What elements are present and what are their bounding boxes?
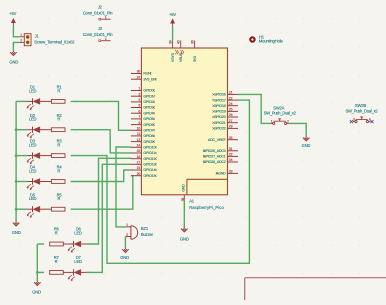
svg-text:GPIO10: GPIO10 [143,146,155,150]
wire D7 to GPIO13 pin 17 [86,164,131,272]
resistor R2 [51,128,65,132]
junction bus row 5 [15,208,18,211]
LED D7 [68,269,93,281]
ground below SW2A [303,136,310,141]
svg-text:22: 22 [229,96,233,100]
svg-text:Conn_01x01_Pin: Conn_01x01_Pin [83,32,114,37]
svg-text:16: 16 [137,155,141,159]
resistor R1 [51,100,65,104]
svg-text:GPIO21: GPIO21 [214,121,226,125]
svg-text:LED: LED [29,169,37,174]
junction bus row 4 [15,180,18,183]
wire stub R7 [37,271,44,273]
wire SW2A to GND [289,123,306,136]
svg-text:5: 5 [138,104,140,108]
svg-text:GND: GND [9,59,18,64]
svg-text:10: 10 [137,127,141,131]
wire GPIO16 to SW2A [238,94,270,123]
svg-text:LED: LED [29,88,37,93]
svg-text:ADC_VREF: ADC_VREF [208,138,227,142]
svg-text:GPIO12: GPIO12 [143,157,155,161]
svg-text:GND: GND [120,255,129,260]
svg-text:GPIO22: GPIO22 [214,127,226,131]
ground left bus [13,221,20,226]
svg-text:A1: A1 [189,199,195,204]
svg-text:4: 4 [138,98,140,102]
sheet frame border corner [245,278,386,300]
svg-text:GPIO14: GPIO14 [143,168,155,172]
svg-text:VSYS: VSYS [171,52,175,62]
svg-text:GPIO3: GPIO3 [143,106,153,110]
mounting hole H1 [250,34,283,43]
svg-text:GPIO5: GPIO5 [143,117,153,121]
svg-text:29: 29 [229,125,233,129]
svg-text:Conn_01x01_Pin: Conn_01x01_Pin [83,11,114,16]
wire resistor R7 to LED D7 [63,271,68,273]
svg-text:14: 14 [137,144,141,148]
buzzer BZ1 [125,223,153,239]
svg-text:12: 12 [137,138,141,142]
connector J2 Conn_01x01_Pin [83,4,114,20]
LED D3 [27,153,52,165]
resistor R5 [51,207,65,211]
svg-text:LED: LED [29,117,37,122]
svg-text:39: 39 [169,40,173,44]
wire pin 38 to GND [183,200,185,228]
Pico top pins [169,40,197,62]
svg-text:GPIO4: GPIO4 [143,111,153,115]
LED D4 [27,178,52,190]
svg-text:33: 33 [229,170,233,174]
svg-text:Buzzer: Buzzer [141,232,154,237]
wire bus stub row 1 [16,100,27,102]
IC A1 RaspberryPi_Pico [141,48,227,210]
svg-text:2: 2 [126,233,128,237]
svg-text:3V3_EN: 3V3_EN [143,77,156,81]
svg-text:R: R [57,143,60,148]
svg-text:1: 1 [105,16,107,20]
svg-text:GPIO1: GPIO1 [143,94,153,98]
svg-text:34: 34 [229,158,233,162]
wire R3 loop to GPIO17 pin 22 [71,100,250,263]
resistor R7 [50,271,64,275]
svg-text:GND: GND [180,236,189,241]
wire R5 to GPIO15 pin 20 [71,176,133,210]
resistor R6 [50,242,64,246]
wire bus stub row 2 [16,129,27,131]
svg-text:+5V: +5V [9,11,16,16]
svg-text:LED: LED [29,196,37,201]
svg-text:GPIO8: GPIO8 [143,134,153,138]
svg-text:GND: GND [181,184,185,192]
svg-text:25: 25 [229,108,233,112]
svg-text:2: 2 [138,92,140,96]
svg-text:20: 20 [137,172,141,176]
pin decorations 39/40 [175,50,178,54]
+5V power symbol (VSYS) [171,19,175,26]
wire resistor R6 to LED D6 [63,243,68,245]
wire bus stub row 3 [16,155,27,157]
svg-text:1: 1 [138,87,140,91]
svg-text:GPIO26_ADC0: GPIO26_ADC0 [203,149,226,153]
ground R6 R7 [34,281,41,286]
svg-text:GPIO19: GPIO19 [214,110,226,114]
svg-text:SW2B: SW2B [355,103,367,108]
switch SW2A SW_Push_Dual_x2 [264,105,297,124]
svg-text:GPIO9: GPIO9 [143,140,153,144]
svg-text:24: 24 [229,102,233,106]
svg-text:35: 35 [229,136,233,140]
wire bus stub row 4 [16,181,27,183]
LED D6 [68,241,93,253]
svg-text:GPIO7: GPIO7 [143,129,153,133]
Pico bottom pin 38 GND [181,184,186,202]
svg-text:GPIO27_ADC1: GPIO27_ADC1 [203,155,226,159]
svg-text:1: 1 [271,120,273,124]
svg-text:11: 11 [137,132,141,136]
Pico right pins [228,94,239,173]
svg-text:32: 32 [229,153,233,157]
svg-text:LED: LED [74,259,82,264]
svg-text:MountingHole: MountingHole [259,39,284,44]
wire stub R6 [37,243,44,245]
svg-text:RaspberryPi_Pico: RaspberryPi_Pico [189,205,224,210]
wire D6 to GPIO12 pin 16 [86,158,131,244]
svg-text:36: 36 [191,40,195,44]
svg-text:1: 1 [126,223,128,227]
svg-text:GPIO16: GPIO16 [214,93,226,97]
wire bus stub row 5 [16,208,27,210]
svg-text:GPIO0: GPIO0 [143,89,153,93]
wire R6 R7 GND bus [36,244,38,281]
ground below buzzer [122,248,129,253]
ground below J1 [10,51,17,56]
svg-text:GPIO13: GPIO13 [143,163,155,167]
wire R4 to GPIO14 pin 19 [71,170,132,182]
svg-text:1: 1 [20,33,22,37]
junction R7 row [36,271,39,274]
svg-text:GPIO17: GPIO17 [214,98,226,102]
svg-text:LED: LED [74,231,82,236]
svg-text:GND: GND [12,230,21,235]
svg-text:3V3: 3V3 [193,56,197,62]
resistor R3 [51,154,65,158]
svg-text:4: 4 [369,118,371,122]
connector J3 Conn_01x01_Pin [83,26,114,42]
svg-text:GPIO2: GPIO2 [143,100,153,104]
connector J1 Screw_Terminal_01x02 [19,33,75,46]
svg-text:GND: GND [32,290,41,295]
LED D2 [27,127,52,139]
svg-text:R: R [57,117,60,122]
Pico left pins [131,74,142,176]
switch SW2B SW_Push_Dual_x2 (unconnected) [346,103,379,123]
svg-text:26: 26 [229,113,233,117]
svg-text:37: 37 [137,75,141,79]
svg-text:2: 2 [287,120,289,124]
svg-text:R: R [55,259,58,264]
svg-text:6: 6 [138,109,140,113]
svg-text:19: 19 [137,166,141,170]
wire buzzer pin2 to GND [124,237,126,249]
svg-text:17: 17 [137,161,141,165]
ground below Pico [181,227,188,232]
svg-text:GPIO18: GPIO18 [214,104,226,108]
svg-text:Screw_Terminal_01x02: Screw_Terminal_01x02 [34,39,75,44]
resistor R4 [51,180,65,184]
wire left GND bus [15,101,17,221]
svg-text:BZ1: BZ1 [141,226,149,231]
svg-text:R: R [55,231,58,236]
wire +5V to VSYS pin 39 [172,26,174,40]
LED D5 [27,206,52,218]
svg-text:GPIO15: GPIO15 [143,174,155,178]
svg-text:9: 9 [138,121,140,125]
svg-text:1: 1 [105,37,107,41]
junction bus row 3 [15,154,18,157]
wire R1 to GPIO7 pin 10 [71,101,132,130]
svg-text:R: R [57,196,60,201]
svg-text:GPIO20: GPIO20 [214,115,226,119]
svg-text:40: 40 [177,40,181,44]
svg-text:GPIO6: GPIO6 [143,123,153,127]
wire +5V to J1 pin 1 [13,26,19,37]
LED D1 [27,98,52,110]
wire buzzer pin1 to GPIO10 pin 14 [116,147,131,227]
svg-text:R: R [57,169,60,174]
svg-text:30: 30 [137,70,141,74]
svg-text:SW_Push_Dual_x2: SW_Push_Dual_x2 [264,110,297,115]
svg-text:GPIO11: GPIO11 [143,151,155,155]
+5V power symbol (J1 supply) [12,19,16,26]
svg-text:27: 27 [229,119,233,123]
wire R2 to GPIO11 pin 15 [71,130,132,153]
wire J1 pin 2 to GND [13,42,19,51]
svg-text:7: 7 [138,115,140,119]
svg-text:2: 2 [20,39,22,43]
svg-text:GPIO28_ADC2: GPIO28_ADC2 [203,160,226,164]
svg-text:21: 21 [229,91,233,95]
svg-text:31: 31 [229,147,233,151]
svg-text:LED: LED [29,143,37,148]
svg-text:SW_Push_Dual_x2: SW_Push_Dual_x2 [346,108,379,113]
svg-text:3: 3 [353,118,355,122]
svg-text:+5V: +5V [169,12,176,17]
junction bus row 2 [15,128,18,131]
svg-text:R: R [57,88,60,93]
svg-text:GND: GND [302,143,311,148]
svg-text:15: 15 [137,149,141,153]
